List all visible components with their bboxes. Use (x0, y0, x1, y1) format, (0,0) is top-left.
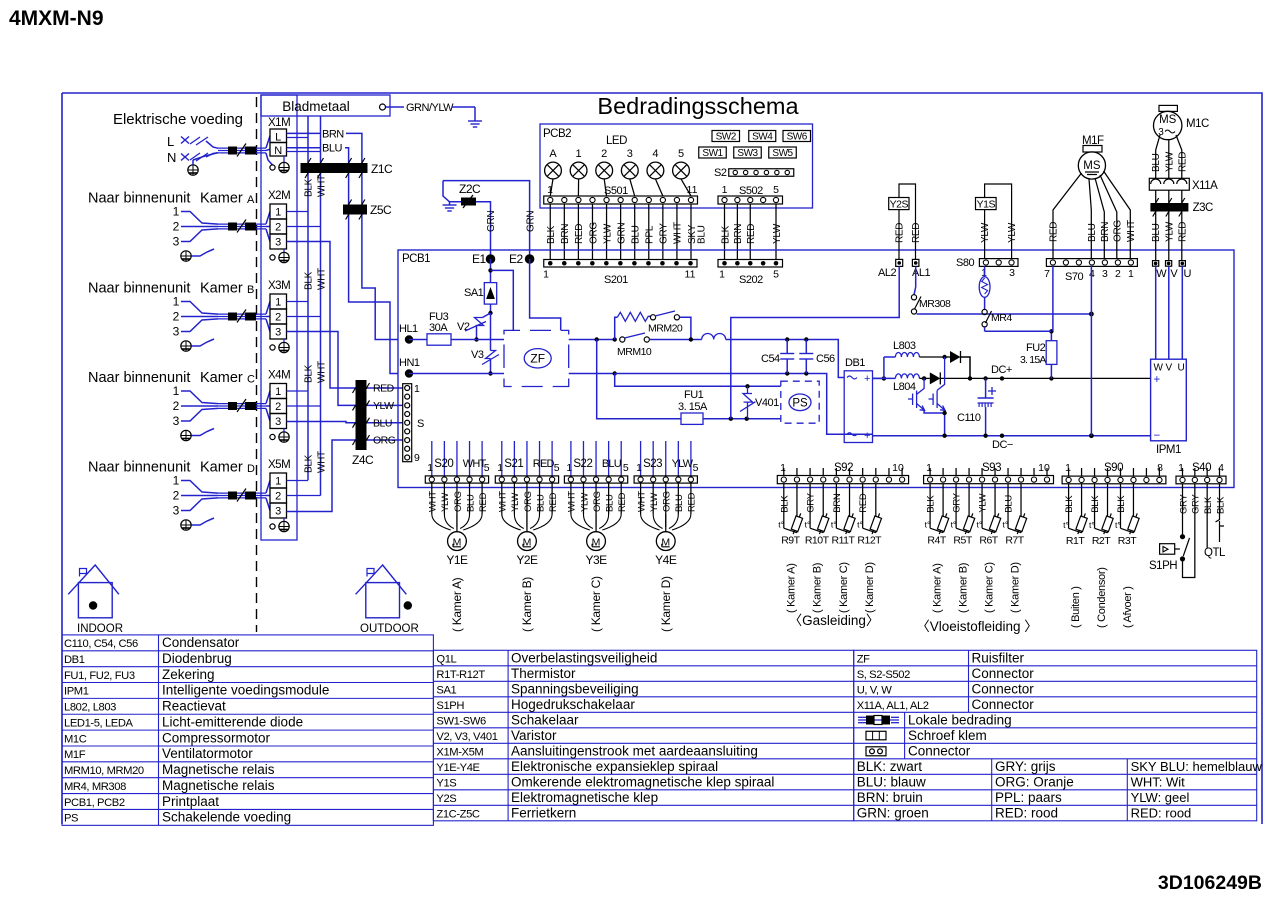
svg-text:X5M: X5M (268, 459, 290, 471)
svg-text:3: 3 (275, 327, 281, 339)
svg-text:X11A, AL1, AL2: X11A, AL1, AL2 (857, 700, 929, 712)
svg-text:BLK: zwart: BLK: zwart (857, 759, 923, 774)
wire R6T pair (981, 484, 983, 529)
wires S21 to Y2E (501, 483, 503, 514)
svg-text:R12T: R12T (857, 535, 882, 547)
svg-text:BLU: BLU (602, 458, 622, 470)
expansion valve motor Y2E (518, 532, 537, 551)
svg-text:BLU: BLU (373, 417, 392, 429)
svg-text:YLW: YLW (1007, 222, 1018, 243)
PCB1 board outline (398, 250, 1234, 488)
wire fan to X5M (266, 481, 270, 494)
switch SW4 (749, 131, 776, 142)
svg-text:INDOOR: INDOOR (77, 623, 123, 635)
svg-text:1: 1 (275, 476, 281, 488)
svg-text:E1: E1 (472, 252, 487, 266)
svg-text:〈Gasleiding〉: 〈Gasleiding〉 (789, 613, 880, 628)
relay contact MRM20 with resistor (615, 317, 618, 339)
svg-text:Y1E: Y1E (446, 553, 468, 567)
svg-text:−: − (1154, 430, 1161, 442)
wire fan to X2M (266, 212, 270, 225)
connector X11A (1149, 178, 1189, 190)
svg-text:( Kamer B): ( Kamer B) (958, 563, 970, 613)
svg-text:Connector: Connector (972, 666, 1035, 681)
svg-text:SKY BLU: hemelblauw: SKY BLU: hemelblauw (1131, 759, 1263, 774)
svg-text:C110, C54, C56: C110, C54, C56 (64, 638, 138, 650)
svg-text:5: 5 (678, 148, 684, 160)
svg-text:2: 2 (275, 491, 281, 503)
svg-text:V: V (1170, 268, 1178, 280)
svg-text:1: 1 (497, 462, 503, 474)
svg-text:YLW: YLW (440, 493, 451, 512)
svg-text:YLW: YLW (602, 223, 613, 244)
svg-text:3. 15A: 3. 15A (1020, 354, 1046, 366)
diode D (L804 branch) (930, 372, 941, 384)
svg-text:GRN: GRN (526, 211, 537, 232)
svg-text:4MXM-N9: 4MXM-N9 (9, 7, 104, 30)
svg-text:SW3: SW3 (737, 148, 758, 159)
svg-text:HL1: HL1 (399, 323, 418, 335)
svg-text:5: 5 (773, 184, 779, 196)
wires room C to bundle (181, 391, 218, 404)
svg-text:ORG: ORG (1113, 220, 1124, 242)
svg-text:MRM20: MRM20 (648, 323, 683, 335)
DC- rail (844, 433, 872, 435)
svg-text:7: 7 (1044, 268, 1050, 280)
svg-text:BLK: BLK (779, 495, 790, 513)
svg-text:V3: V3 (471, 349, 484, 361)
svg-text:Magnetische relais: Magnetische relais (162, 762, 275, 777)
svg-text:ZF: ZF (530, 352, 545, 366)
svg-text:YLW: YLW (672, 458, 694, 470)
svg-text:1: 1 (275, 297, 281, 309)
svg-text:MR4: MR4 (991, 312, 1012, 324)
svg-text:BLK: BLK (720, 225, 731, 244)
svg-text:30A: 30A (429, 322, 448, 334)
svg-text:1: 1 (576, 148, 582, 160)
svg-text:WHT: WHT (567, 491, 578, 512)
svg-text:BLU: BLU (1004, 495, 1015, 513)
svg-text:1: 1 (722, 184, 728, 196)
svg-text:Bedradingsschema: Bedradingsschema (597, 93, 799, 119)
svg-text:Thermistor: Thermistor (511, 666, 576, 681)
wire fan to X3M (266, 302, 270, 315)
svg-text:RED: RED (895, 223, 906, 243)
connector S202 (718, 260, 783, 268)
svg-text:Z5C: Z5C (370, 203, 392, 217)
svg-text:Z1C-Z5C: Z1C-Z5C (436, 808, 480, 820)
house icon INDOOR (68, 565, 119, 618)
svg-text:2: 2 (173, 399, 180, 413)
cable clamp room B (218, 313, 266, 315)
svg-text:R3T: R3T (1118, 535, 1137, 547)
svg-text:BLU: BLU (1087, 223, 1098, 242)
svg-text:Diodenbrug: Diodenbrug (162, 651, 232, 666)
svg-text:RED: RED (858, 493, 869, 513)
wire HN1 line (409, 373, 504, 375)
Bladmetaal box (261, 95, 390, 116)
svg-text:E2: E2 (509, 252, 524, 266)
svg-text:Condensator: Condensator (162, 635, 240, 650)
wire R4T pair (929, 484, 931, 529)
svg-text:5: 5 (623, 462, 629, 474)
wire to reactor (649, 339, 701, 341)
svg-text:Z1C: Z1C (371, 162, 393, 176)
svg-text:2: 2 (601, 148, 607, 160)
svg-text:BLU: BLU (465, 494, 476, 512)
svg-text:MRM10, MRM20: MRM10, MRM20 (64, 765, 144, 777)
wire X2M pin1 to BLK bus (287, 211, 309, 213)
svg-text:4: 4 (652, 148, 658, 160)
svg-text:IPM1: IPM1 (1156, 444, 1181, 456)
X2M earth point (270, 255, 275, 260)
thermistor R4T (936, 512, 950, 535)
svg-text:( Kamer D): ( Kamer D) (1010, 562, 1022, 613)
svg-text:M1C: M1C (64, 733, 87, 745)
svg-text:1: 1 (926, 462, 932, 474)
svg-text:U, V, W: U, V, W (857, 684, 893, 696)
svg-text:ORG: Oranje: ORG: Oranje (995, 774, 1074, 789)
svg-text:M1F: M1F (64, 749, 86, 761)
svg-text:SW1: SW1 (702, 148, 723, 159)
svg-text:R9T: R9T (781, 535, 800, 547)
svg-text:YLW: YLW (772, 223, 783, 244)
terminal U (1179, 261, 1185, 267)
thermistor R11T (842, 512, 856, 535)
svg-text:GRN: GRN (486, 211, 497, 232)
svg-text:SA1: SA1 (464, 287, 484, 299)
svg-text:S21: S21 (504, 458, 523, 470)
wire E1 to SA1 and ZF (490, 259, 492, 283)
expansion valve motor Y1E (448, 532, 467, 551)
svg-text:Magnetische relais: Magnetische relais (162, 778, 275, 793)
svg-text:2: 2 (275, 312, 281, 324)
svg-text:RED: RED (574, 224, 585, 244)
svg-text:Z3C: Z3C (1193, 202, 1213, 214)
svg-text:BLU: BLU (604, 494, 615, 512)
svg-text:1: 1 (566, 462, 572, 474)
svg-text:Compressormotor: Compressormotor (162, 730, 271, 745)
svg-text:Licht-emitterende diode: Licht-emitterende diode (162, 714, 303, 729)
thermal protector QTL (1206, 516, 1208, 548)
X1M earth point (270, 165, 275, 170)
svg-text:BLK: BLK (304, 454, 315, 473)
svg-text:Connector: Connector (972, 681, 1035, 696)
svg-text:ORG: ORG (523, 491, 534, 512)
svg-text:ORG: ORG (588, 222, 599, 244)
reactor coil (line filter) (702, 334, 726, 340)
svg-text:S: S (417, 418, 424, 430)
svg-text:WHT: WHT (428, 491, 439, 512)
switch SW3 (734, 147, 762, 158)
cable clamp (supply bundle) (218, 147, 266, 149)
svg-text:3. 15A: 3. 15A (678, 401, 708, 413)
svg-text:BLU: BLU (535, 494, 546, 512)
svg-text:X1M: X1M (268, 117, 290, 129)
svg-text:BLK: BLK (1215, 496, 1226, 514)
wire L to bundle (206, 141, 218, 148)
svg-text:C: C (247, 374, 255, 386)
relay contact MR4 (984, 297, 986, 309)
svg-text:S23: S23 (643, 458, 662, 470)
svg-text:WHT: WHT (317, 268, 328, 290)
svg-text:Elektromagnetische klep: Elektromagnetische klep (511, 790, 658, 805)
svg-text:9: 9 (414, 452, 420, 464)
X5M earth point (270, 524, 275, 529)
wires room A to bundle (181, 212, 218, 225)
wire HL1 line (409, 339, 427, 341)
svg-text:( Kamer C): ( Kamer C) (838, 562, 850, 613)
svg-text:R7T: R7T (1005, 535, 1024, 547)
svg-text:GRY: GRY (1191, 494, 1202, 514)
svg-text:Elektrische voeding: Elektrische voeding (113, 111, 243, 128)
svg-text:3: 3 (275, 237, 281, 249)
wires S501 to S201 (549, 204, 551, 260)
svg-text:Y2S: Y2S (436, 793, 456, 805)
svg-text:S22: S22 (573, 458, 592, 470)
legend symbol Connector (866, 747, 886, 756)
svg-text:( Kamer C): ( Kamer C) (984, 562, 996, 613)
svg-text:FU1, FU2, FU3: FU1, FU2, FU3 (64, 670, 135, 682)
svg-text:GRY: GRY (659, 223, 670, 244)
expansion valve motor Y3E (587, 532, 606, 551)
wire top rail to DB1 (726, 340, 845, 378)
svg-text:HN1: HN1 (399, 357, 420, 369)
cable clamp room D (218, 492, 266, 494)
svg-text:RED: RED (533, 458, 555, 470)
svg-text:2: 2 (173, 489, 180, 503)
svg-text:YLW: YLW (980, 222, 991, 243)
svg-text:Intelligente voedingsmodule: Intelligente voedingsmodule (162, 683, 329, 698)
svg-text:t°: t° (925, 520, 931, 530)
svg-text:WHT: Wit: WHT: Wit (1131, 774, 1186, 789)
svg-text:BLK: BLK (1203, 496, 1214, 514)
svg-text:L804: L804 (893, 381, 916, 393)
wires W V U to IPM1 (1155, 266, 1157, 359)
connector S201 (544, 260, 697, 268)
svg-text:1: 1 (173, 295, 180, 309)
svg-text:SW2: SW2 (716, 132, 737, 143)
svg-text:PPL: PPL (645, 225, 656, 244)
svg-text:YLW: YLW (579, 493, 590, 512)
wire X5M pin2 to WHT bus (287, 495, 321, 497)
svg-text:W: W (1156, 268, 1167, 280)
svg-text:3: 3 (173, 414, 180, 428)
legend symbol Schroef klem (866, 731, 886, 740)
svg-text:V: V (1166, 363, 1173, 374)
svg-text:C56: C56 (816, 353, 835, 365)
DC+ rail (940, 377, 1150, 379)
svg-text:11: 11 (685, 269, 696, 281)
svg-text:PS: PS (64, 813, 78, 825)
svg-text:WHT: WHT (673, 222, 684, 244)
svg-text:( Kamer D): ( Kamer D) (864, 562, 876, 613)
svg-text:Connector: Connector (972, 697, 1035, 712)
svg-text:S93: S93 (982, 462, 1001, 474)
svg-text:Spanningsbeveiliging: Spanningsbeveiliging (511, 681, 639, 696)
protective earth electrode (supply) (188, 165, 198, 175)
svg-text:S20: S20 (434, 458, 453, 470)
svg-text:5: 5 (693, 462, 699, 474)
svg-text:Y1S: Y1S (977, 198, 996, 210)
svg-text:BLU: BLU (1151, 153, 1162, 172)
svg-text:QTL: QTL (1204, 547, 1226, 559)
svg-text:PS: PS (792, 398, 808, 410)
cable clamp room A (218, 223, 266, 225)
svg-text:BLU: BLU (674, 494, 685, 512)
svg-text:X2M: X2M (268, 190, 290, 202)
switch SW1 (699, 147, 727, 158)
bus wire BLK (left) (307, 116, 309, 480)
wire gather to Y1E (432, 514, 451, 530)
svg-text:BLK: BLK (304, 271, 315, 290)
svg-text:PPL: paars: PPL: paars (995, 790, 1062, 805)
protective earth room A (181, 251, 191, 261)
svg-text:1: 1 (275, 207, 281, 219)
wire R7T pair (1007, 484, 1009, 529)
wire MR4 to FU2 (984, 327, 986, 331)
wire gather to Y3E (571, 514, 590, 530)
terminal AL1 (912, 259, 919, 266)
svg-text:( Kamer D): ( Kamer D) (659, 576, 673, 632)
svg-text:Y1S: Y1S (436, 777, 456, 789)
svg-text:t°: t° (778, 520, 784, 530)
svg-text:RED: RED (478, 492, 489, 512)
wire HL1 branch to FU1 (597, 340, 681, 419)
svg-text:1: 1 (636, 462, 642, 474)
svg-text:W: W (1154, 363, 1164, 374)
PCB2 board outline (540, 124, 813, 208)
switch contact N (181, 154, 189, 161)
connector S (terminal strip) (403, 384, 412, 462)
svg-text:ORG: ORG (592, 491, 603, 512)
svg-text:V2: V2 (457, 321, 470, 333)
svg-text:WHT: WHT (636, 491, 647, 512)
svg-text:DB1: DB1 (64, 654, 85, 666)
noise filter ZF (504, 330, 569, 386)
svg-text:BRN: BRN (560, 224, 571, 244)
high pressure switch S1PH (1182, 516, 1184, 537)
thermistor R6T (988, 512, 1002, 535)
wire X3M pin3 to S pin3 (YLW) (287, 332, 403, 406)
svg-text:WHT: WHT (1126, 220, 1137, 242)
svg-text:Hogedrukschakelaar: Hogedrukschakelaar (511, 697, 635, 712)
relay contact MRM10 (620, 337, 625, 342)
svg-text:t°: t° (1063, 520, 1069, 530)
svg-text:Varistor: Varistor (511, 728, 557, 743)
svg-text:BLK: BLK (1090, 495, 1101, 513)
relay contact MR308 (915, 266, 917, 287)
wire X4M pin2 to WHT bus (287, 405, 321, 407)
svg-text:BLK: BLK (926, 495, 937, 513)
svg-text:C54: C54 (761, 353, 780, 365)
wires M1C to X11A (1156, 135, 1160, 178)
wire R2T pair (1094, 484, 1096, 529)
svg-text:MS: MS (1083, 160, 1101, 172)
svg-text:BLU: BLU (631, 225, 642, 244)
svg-text:V401: V401 (755, 397, 779, 409)
svg-text:LED1-5, LEDA: LED1-5, LEDA (64, 717, 134, 729)
svg-text:+: + (864, 430, 870, 442)
svg-text:R6T: R6T (979, 535, 998, 547)
svg-text:t°: t° (951, 520, 957, 530)
svg-text:RED: rood: RED: rood (995, 805, 1058, 820)
wire X2M pin3 to S pin1 (RED) (287, 242, 403, 389)
svg-text:FU1: FU1 (684, 389, 704, 401)
wire R5T pair (955, 484, 957, 529)
svg-text:S, S2-S502: S, S2-S502 (857, 669, 910, 681)
svg-text:Aansluitingenstrook met aardea: Aansluitingenstrook met aardeaansluiting (511, 743, 758, 758)
svg-text:Zekering: Zekering (162, 667, 215, 682)
svg-text:1: 1 (719, 269, 725, 281)
solenoid valve coil Y2S (889, 198, 909, 210)
svg-text:Z2C: Z2C (459, 182, 481, 196)
svg-text:1: 1 (275, 386, 281, 398)
svg-text:BLK: BLK (304, 178, 315, 197)
svg-text:B: B (247, 284, 254, 296)
svg-text:Y2E: Y2E (516, 553, 538, 567)
svg-text:3: 3 (275, 416, 281, 428)
ferrite core Z1C (301, 163, 368, 173)
svg-text:Kamer: Kamer (200, 281, 243, 297)
svg-text:SW4: SW4 (752, 132, 773, 143)
svg-text:SW5: SW5 (772, 148, 793, 159)
svg-text:RED: rood: RED: rood (1131, 805, 1192, 820)
svg-text:GRN/YLW: GRN/YLW (406, 102, 454, 114)
svg-text:8: 8 (1157, 462, 1163, 474)
wire SA1 to V3 (490, 313, 492, 351)
svg-text:1: 1 (173, 384, 180, 398)
bus wire WHT (left) (320, 116, 322, 496)
svg-text:R1T-R12T: R1T-R12T (436, 669, 485, 681)
protective earth room C (181, 430, 191, 440)
svg-text:DC+: DC+ (991, 364, 1012, 376)
svg-text:Kamer: Kamer (200, 191, 243, 207)
svg-text:( Kamer A): ( Kamer A) (450, 577, 464, 632)
wire R12T pair (862, 484, 864, 529)
wire IGBT emitters to DC- (924, 410, 945, 413)
svg-text:Q1L: Q1L (436, 653, 456, 665)
svg-text:1: 1 (780, 462, 786, 474)
wire DB1 + output (873, 377, 884, 379)
svg-text:GRN: GRN (616, 223, 627, 244)
svg-text:MS: MS (1159, 114, 1177, 126)
svg-text:X11A: X11A (1192, 180, 1218, 192)
switch SW2 (712, 131, 740, 142)
svg-text:DB1: DB1 (845, 357, 865, 369)
svg-text:2: 2 (173, 310, 180, 324)
svg-text:( Kamer A): ( Kamer A) (785, 563, 797, 613)
svg-text:D: D (247, 463, 255, 475)
svg-text:PCB1, PCB2: PCB1, PCB2 (64, 797, 125, 809)
svg-text:S1PH: S1PH (436, 700, 464, 712)
wires Z3C to W V U (1155, 222, 1157, 261)
svg-text:BRN: BRN (832, 493, 843, 513)
wires S20 to Y1E (431, 483, 433, 514)
wires M1F to S70 (1053, 173, 1082, 259)
svg-text:Y1E-Y4E: Y1E-Y4E (436, 762, 479, 774)
svg-text:1: 1 (1178, 462, 1184, 474)
wires room B to bundle (181, 302, 218, 315)
svg-text:GRY: grijs: GRY: grijs (995, 759, 1056, 774)
svg-text:DC−: DC− (992, 439, 1013, 451)
X4M earth point (270, 434, 275, 439)
svg-text:YLW: YLW (510, 493, 521, 512)
solenoid coil MR4 (reversing valve) (984, 266, 986, 276)
thermistor R10T (816, 512, 830, 535)
svg-text:3D106249B: 3D106249B (1158, 872, 1262, 894)
switch contact L (181, 137, 189, 144)
